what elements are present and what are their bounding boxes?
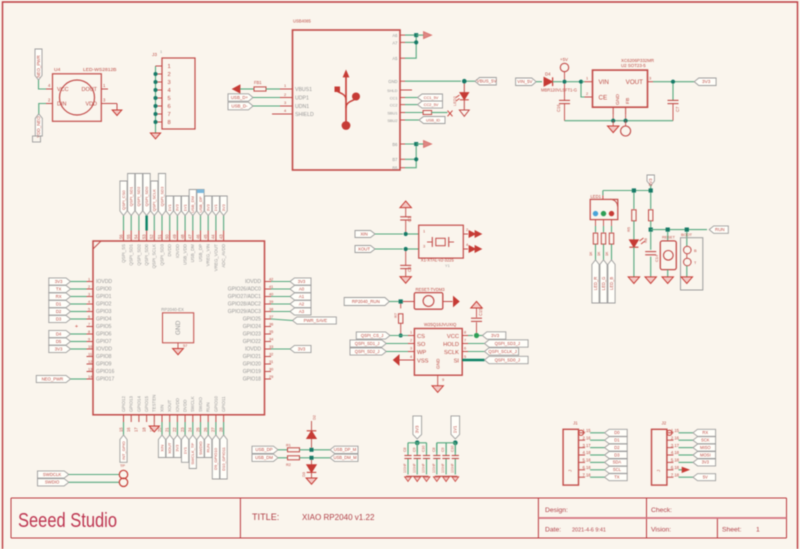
svg-text:TP: TP <box>120 463 125 468</box>
svg-text:GPIO15: GPIO15 <box>144 396 149 412</box>
svg-text:GND: GND <box>436 358 441 369</box>
svg-text:MOSI: MOSI <box>700 452 711 457</box>
svg-text:26: 26 <box>203 427 208 432</box>
svg-text:J1: J1 <box>573 421 578 426</box>
svg-text:C9: C9 <box>441 447 445 452</box>
svg-text:48: 48 <box>180 234 185 239</box>
svg-text:35: 35 <box>269 329 273 334</box>
svg-text:1: 1 <box>423 229 425 234</box>
svg-text:54: 54 <box>134 234 139 239</box>
svg-text:3: 3 <box>410 347 412 351</box>
svg-text:GPIO19: GPIO19 <box>243 369 261 375</box>
svg-text:XIN: XIN <box>360 231 367 236</box>
svg-text:QSPI_SCLK: QSPI_SCLK <box>152 244 157 269</box>
svg-text:2021-4-6 9:41: 2021-4-6 9:41 <box>572 528 606 534</box>
svg-text:C16: C16 <box>556 104 561 112</box>
svg-text:3V3: 3V3 <box>221 203 226 211</box>
svg-text:42: 42 <box>269 276 273 281</box>
svg-text:8: 8 <box>88 329 90 334</box>
svg-text:Seeed Studio: Seeed Studio <box>18 509 117 532</box>
svg-text:3V3: 3V3 <box>702 460 710 465</box>
svg-text:R6: R6 <box>643 238 648 243</box>
svg-text:VREG_VIN: VREG_VIN <box>206 244 211 266</box>
svg-text:2: 2 <box>466 227 468 232</box>
svg-text:1K: 1K <box>597 251 601 256</box>
svg-text:GPIO2: GPIO2 <box>96 302 112 308</box>
svg-text:QSPI_SD2: QSPI_SD2 <box>136 186 141 206</box>
svg-text:D2: D2 <box>56 309 62 314</box>
svg-text:GPIO24: GPIO24 <box>243 324 261 330</box>
svg-text:6.18: 6.18 <box>671 465 680 470</box>
svg-text:SWDIO: SWDIO <box>198 396 203 412</box>
svg-text:GPIO1: GPIO1 <box>96 294 112 300</box>
svg-text:46: 46 <box>195 234 200 239</box>
svg-text:Design:: Design: <box>545 507 568 514</box>
svg-text:RUN: RUN <box>715 227 725 232</box>
svg-text:GPIO9: GPIO9 <box>96 362 112 368</box>
svg-text:GND: GND <box>175 320 182 335</box>
svg-text:39: 39 <box>269 299 273 304</box>
svg-text:55: 55 <box>126 234 131 239</box>
svg-text:SWCLK_TP: SWCLK_TP <box>190 443 195 465</box>
svg-text:GPIO18: GPIO18 <box>243 377 261 383</box>
svg-text:38: 38 <box>269 306 273 311</box>
svg-text:B7: B7 <box>392 157 398 162</box>
svg-text:+5V: +5V <box>560 57 568 62</box>
svg-text:USB_VDD: USB_VDD <box>183 244 188 265</box>
svg-text:8: 8 <box>464 331 466 335</box>
svg-text:21: 21 <box>165 427 170 432</box>
svg-text:RUN: RUN <box>206 402 211 412</box>
svg-text:7.18: 7.18 <box>583 472 592 477</box>
svg-text:1: 1 <box>410 331 412 335</box>
svg-text:D3: D3 <box>56 316 62 321</box>
svg-text:VCC: VCC <box>447 334 459 340</box>
svg-text:BOOT: BOOT <box>681 232 693 237</box>
svg-text:GPIO10: GPIO10 <box>213 396 218 412</box>
svg-text:IOVDD: IOVDD <box>96 347 112 353</box>
svg-text:53: 53 <box>141 234 146 239</box>
svg-text:1: 1 <box>160 49 162 54</box>
svg-text:22: 22 <box>172 427 177 432</box>
svg-text:17: 17 <box>134 427 139 432</box>
svg-text:USB_DP: USB_DP <box>255 447 272 452</box>
svg-text:QSPI_SCLK_J: QSPI_SCLK_J <box>488 349 516 354</box>
svg-text:3.17: 3.17 <box>583 443 592 448</box>
svg-text:GPIO16: GPIO16 <box>96 369 114 375</box>
svg-text:1K: 1K <box>589 251 593 256</box>
svg-text:QSPI_SD0: QSPI_SD0 <box>144 186 149 206</box>
svg-text:C10: C10 <box>422 446 426 452</box>
svg-text:B5: B5 <box>392 165 398 170</box>
svg-text:1V1: 1V1 <box>167 203 172 211</box>
svg-text:36: 36 <box>269 321 273 326</box>
svg-text:RUN: RUN <box>206 444 211 453</box>
svg-text:DVDD: DVDD <box>167 244 172 257</box>
svg-text:2: 2 <box>410 339 412 343</box>
svg-text:27: 27 <box>211 427 216 432</box>
svg-text:3V3: 3V3 <box>55 279 63 284</box>
svg-text:SCLK: SCLK <box>444 350 459 356</box>
svg-text:XIN: XIN <box>159 405 164 412</box>
svg-text:20: 20 <box>157 427 162 432</box>
svg-text:3V3: 3V3 <box>206 203 211 211</box>
svg-text:D4: D4 <box>56 331 62 336</box>
svg-text:RX: RX <box>702 430 708 435</box>
svg-text:2: 2 <box>168 72 171 78</box>
svg-text:USB_ID: USB_ID <box>426 117 440 122</box>
svg-text:XIN: XIN <box>159 445 164 452</box>
svg-text:CC1: CC1 <box>390 95 398 100</box>
svg-text:8: 8 <box>168 120 171 126</box>
svg-text:QSPI_SS: QSPI_SS <box>121 244 126 263</box>
svg-text:NEO_PWR: NEO_PWR <box>42 376 64 381</box>
svg-text:NEO_PWR: NEO_PWR <box>36 55 41 77</box>
svg-text:1: 1 <box>168 64 171 70</box>
svg-text:3: 3 <box>423 244 425 249</box>
svg-text:LED_B: LED_B <box>609 277 614 290</box>
svg-text:D4: D4 <box>545 72 551 77</box>
svg-text:USB_D-: USB_D- <box>231 103 248 108</box>
svg-text:24: 24 <box>188 427 193 432</box>
svg-text:RESET-TVDM3: RESET-TVDM3 <box>416 287 446 292</box>
svg-text:3: 3 <box>88 291 90 296</box>
svg-text:CC2: CC2 <box>390 103 398 108</box>
svg-text:GPIO23: GPIO23 <box>243 332 261 338</box>
svg-text:6.18: 6.18 <box>583 465 592 470</box>
svg-text:RP2040-EX: RP2040-EX <box>161 307 184 312</box>
svg-text:XOUT: XOUT <box>167 399 172 412</box>
svg-text:3.17: 3.17 <box>671 443 680 448</box>
svg-text:R2: R2 <box>286 463 291 467</box>
svg-text:2: 2 <box>586 91 588 96</box>
svg-text:2: 2 <box>88 284 90 289</box>
svg-text:SBU2: SBU2 <box>387 118 397 123</box>
svg-text:3: 3 <box>284 100 286 105</box>
svg-text:A2: A2 <box>299 301 305 306</box>
svg-text:UDP1: UDP1 <box>295 96 309 102</box>
svg-text:UDN1: UDN1 <box>295 104 309 110</box>
svg-text:GPIO17: GPIO17 <box>96 377 114 383</box>
svg-text:DOUT: DOUT <box>82 87 98 93</box>
svg-text:50: 50 <box>165 234 170 239</box>
svg-text:6: 6 <box>168 104 171 110</box>
svg-text:GND: GND <box>388 79 397 84</box>
svg-text:51: 51 <box>157 234 162 239</box>
svg-text:100nF: 100nF <box>403 463 407 473</box>
svg-text:J3: J3 <box>152 52 157 57</box>
svg-text:VCC: VCC <box>57 87 69 93</box>
svg-text:1V1: 1V1 <box>453 425 458 433</box>
svg-text:7: 7 <box>88 321 90 326</box>
svg-text:LED_G: LED_G <box>601 277 606 291</box>
svg-text:QSPI_SD0_J: QSPI_SD0_J <box>495 357 520 362</box>
svg-text:C3: C3 <box>407 216 412 222</box>
svg-text:A6: A6 <box>392 33 398 38</box>
svg-text:CC1_5V: CC1_5V <box>424 95 439 100</box>
svg-text:3: 3 <box>168 80 171 86</box>
svg-text:49: 49 <box>172 234 177 239</box>
svg-text:7: 7 <box>464 339 466 343</box>
svg-text:LED1: LED1 <box>591 194 602 199</box>
svg-text:GPIO4: GPIO4 <box>96 317 112 323</box>
svg-text:XOUT: XOUT <box>358 246 371 251</box>
svg-text:5: 5 <box>168 96 171 102</box>
svg-text:SWDIO: SWDIO <box>198 441 203 455</box>
svg-text:A3: A3 <box>299 309 305 314</box>
svg-text:DVDD: DVDD <box>183 400 188 413</box>
svg-text:4: 4 <box>410 355 412 359</box>
svg-text:A5: A5 <box>392 56 398 61</box>
svg-text:3V3: 3V3 <box>55 346 63 351</box>
svg-text:TX: TX <box>614 475 620 480</box>
svg-text:TESTEN: TESTEN <box>152 395 157 412</box>
svg-text:GPIO25: GPIO25 <box>243 317 261 323</box>
svg-text:USB4085: USB4085 <box>293 19 311 24</box>
svg-text:41: 41 <box>269 284 273 289</box>
svg-text:18: 18 <box>141 427 146 432</box>
svg-text:5: 5 <box>464 355 466 359</box>
svg-text:GPIO22: GPIO22 <box>243 339 261 345</box>
svg-text:LED-WS2812B: LED-WS2812B <box>83 67 117 73</box>
svg-text:QSPI_SD1: QSPI_SD1 <box>129 186 134 206</box>
svg-text:Vision:: Vision: <box>651 527 671 534</box>
svg-text:A1: A1 <box>299 294 305 299</box>
svg-text:USB_DM: USB_DM <box>255 455 273 460</box>
svg-text:100nF: 100nF <box>412 463 416 473</box>
svg-text:1K: 1K <box>605 251 609 256</box>
svg-text:1V1: 1V1 <box>182 446 187 454</box>
svg-text:C8: C8 <box>432 447 436 452</box>
svg-text:HOLD: HOLD <box>443 342 459 348</box>
svg-text:100nF: 100nF <box>451 463 455 473</box>
svg-text:SWDCLK: SWDCLK <box>43 472 61 477</box>
svg-text:23: 23 <box>180 427 185 432</box>
svg-text:R7: R7 <box>393 313 398 318</box>
svg-text:3V3: 3V3 <box>648 178 653 186</box>
svg-text:RX: RX <box>56 294 62 299</box>
svg-text:D0: D0 <box>614 430 620 435</box>
svg-text:43: 43 <box>218 234 223 239</box>
svg-text:C15: C15 <box>478 308 483 316</box>
svg-text:VOUT: VOUT <box>626 79 644 86</box>
svg-text:4.18: 4.18 <box>583 450 592 455</box>
svg-text:3V3: 3V3 <box>175 444 180 452</box>
svg-text:1.15: 1.15 <box>671 428 680 433</box>
svg-text:25: 25 <box>195 427 200 432</box>
svg-text:QSPI_SD1_J: QSPI_SD1_J <box>355 341 380 346</box>
svg-text:SHLD: SHLD <box>387 88 398 93</box>
svg-text:Date:: Date: <box>545 527 561 534</box>
svg-text:GPIO6: GPIO6 <box>96 332 112 338</box>
svg-text:IOVDD: IOVDD <box>245 279 261 285</box>
svg-text:28: 28 <box>218 427 223 432</box>
svg-text:X1-XTAL-v2-3225: X1-XTAL-v2-3225 <box>421 258 455 263</box>
svg-text:2.16: 2.16 <box>671 435 680 440</box>
svg-text:PWR_SAVE: PWR_SAVE <box>304 318 328 323</box>
svg-text:VBUS1: VBUS1 <box>295 87 312 93</box>
svg-text:13: 13 <box>88 366 92 371</box>
svg-text:GPIO8: GPIO8 <box>96 354 112 360</box>
svg-text:SWDIO: SWDIO <box>45 480 60 485</box>
svg-text:1V1: 1V1 <box>213 203 218 211</box>
svg-text:31: 31 <box>269 359 273 364</box>
svg-text:D1: D1 <box>614 438 620 443</box>
svg-text:J: J <box>656 470 661 472</box>
svg-text:1V1: 1V1 <box>182 203 187 211</box>
svg-text:D1: D1 <box>56 301 62 306</box>
svg-text:SCL: SCL <box>613 467 622 472</box>
svg-text:GPIO26/ADC0: GPIO26/ADC0 <box>228 287 261 293</box>
svg-text:37: 37 <box>269 314 273 319</box>
svg-text:SCK: SCK <box>701 438 710 443</box>
svg-text:QSPI_CS0: QSPI_CS0 <box>121 190 126 210</box>
svg-text:GPIO21: GPIO21 <box>243 354 261 360</box>
svg-text:RP2040_RUN: RP2040_RUN <box>352 299 380 304</box>
svg-text:1: 1 <box>586 76 588 81</box>
svg-text:VREG_VOUT: VREG_VOUT <box>213 244 218 271</box>
svg-text:57: 57 <box>183 343 187 348</box>
svg-text:D2: D2 <box>614 445 620 450</box>
svg-text:QSPI_SD0: QSPI_SD0 <box>144 243 149 265</box>
svg-text:GPIO13: GPIO13 <box>129 396 134 412</box>
svg-text:VSS: VSS <box>417 358 429 364</box>
svg-text:5.18: 5.18 <box>583 458 592 463</box>
svg-text:VBUS_5V: VBUS_5V <box>477 79 497 84</box>
svg-text:32: 32 <box>269 351 273 356</box>
svg-text:A7: A7 <box>392 40 398 45</box>
svg-text:MBR120VLSFT1-G: MBR120VLSFT1-G <box>541 88 577 93</box>
svg-text:GPIO29/ADC3: GPIO29/ADC3 <box>228 309 261 315</box>
svg-text:1: 1 <box>756 527 760 534</box>
svg-text:5: 5 <box>88 306 90 311</box>
svg-text:GPIO14: GPIO14 <box>136 396 141 412</box>
svg-text:VDD_NEO: VDD_NEO <box>36 116 41 138</box>
svg-text:100nF: 100nF <box>432 463 436 473</box>
svg-text:GPIO28/ADC2: GPIO28/ADC2 <box>228 302 261 308</box>
svg-text:2.16: 2.16 <box>583 435 592 440</box>
svg-text:9: 9 <box>88 336 90 341</box>
svg-text:9: 9 <box>442 377 444 382</box>
svg-text:U2 SOT23-5: U2 SOT23-5 <box>621 63 646 68</box>
svg-text:QSPI_SD3: QSPI_SD3 <box>159 243 164 265</box>
svg-text:QSPI_SD1: QSPI_SD1 <box>129 243 134 265</box>
svg-text:3: 3 <box>649 76 651 81</box>
svg-text:DIN: DIN <box>57 102 66 108</box>
svg-text:MISO: MISO <box>700 445 711 450</box>
svg-text:VIN: VIN <box>599 79 609 86</box>
svg-text:VDD: VDD <box>85 102 97 108</box>
svg-text:C8: C8 <box>403 447 407 452</box>
svg-text:52: 52 <box>149 234 154 239</box>
svg-text:CS: CS <box>417 334 425 340</box>
svg-text:A0: A0 <box>299 286 305 291</box>
svg-text:33: 33 <box>269 344 273 349</box>
svg-text:QSPI_CS_J: QSPI_CS_J <box>361 333 383 338</box>
svg-text:5V: 5V <box>703 475 708 480</box>
svg-text:C4: C4 <box>407 266 412 272</box>
svg-text:B: B <box>694 248 697 253</box>
svg-text:B6: B6 <box>392 142 398 147</box>
svg-text:C9: C9 <box>412 447 416 452</box>
svg-text:GPIO11: GPIO11 <box>221 396 226 412</box>
svg-text:D9_GPIO10: D9_GPIO10 <box>213 447 218 470</box>
svg-text:INT_GPIO: INT_GPIO <box>121 441 126 460</box>
svg-text:+: + <box>75 324 78 330</box>
svg-text:FB1: FB1 <box>254 80 262 85</box>
svg-text:XOUT: XOUT <box>167 442 172 454</box>
svg-text:56: 56 <box>118 234 123 239</box>
svg-text:D5: D5 <box>56 339 62 344</box>
svg-text:R1: R1 <box>286 444 291 448</box>
svg-text:7.18: 7.18 <box>671 472 680 477</box>
svg-text:3V3: 3V3 <box>298 279 306 284</box>
svg-text:SBU1: SBU1 <box>387 110 397 115</box>
svg-text:GPIO20: GPIO20 <box>243 362 261 368</box>
svg-text:GPIO0: GPIO0 <box>96 287 112 293</box>
svg-text:USB_DM: USB_DM <box>190 195 195 212</box>
svg-text:TITLE:: TITLE: <box>252 512 279 522</box>
svg-text:GPIO3: GPIO3 <box>96 309 112 315</box>
svg-text:USB_D+: USB_D+ <box>231 95 249 100</box>
svg-text:16: 16 <box>126 427 131 432</box>
svg-text:U4: U4 <box>54 67 61 73</box>
svg-text:QSPI_SD3_J: QSPI_SD3_J <box>495 341 520 346</box>
svg-text:6: 6 <box>464 347 466 351</box>
svg-text:47: 47 <box>188 234 193 239</box>
svg-text:D2: D2 <box>312 415 317 420</box>
svg-text:D3: D3 <box>614 452 620 457</box>
svg-text:C7: C7 <box>675 106 680 112</box>
svg-text:2: 2 <box>284 92 286 97</box>
svg-text:J2: J2 <box>662 421 667 426</box>
svg-text:QSPI_SD3: QSPI_SD3 <box>159 186 164 206</box>
svg-text:SHIELD: SHIELD <box>295 112 314 118</box>
svg-text:44: 44 <box>211 234 216 239</box>
svg-text:100nF: 100nF <box>441 463 445 473</box>
svg-text:C14: C14 <box>654 254 659 262</box>
svg-text:RESET: RESET <box>662 235 676 240</box>
svg-text:LED_R: LED_R <box>593 277 598 290</box>
svg-text:LED2: LED2 <box>452 96 457 106</box>
svg-text:USB_DP: USB_DP <box>198 196 203 212</box>
svg-text:GPIO7: GPIO7 <box>96 339 112 345</box>
svg-text:4.18: 4.18 <box>671 450 680 455</box>
svg-text:3V3: 3V3 <box>491 333 500 338</box>
svg-text:SO: SO <box>417 342 426 348</box>
svg-text:11: 11 <box>88 351 92 356</box>
svg-text:3V3: 3V3 <box>702 79 711 84</box>
svg-text:USB_DP_M: USB_DP_M <box>334 447 357 452</box>
svg-text:15: 15 <box>118 427 123 432</box>
svg-text:QSPI_SD2: QSPI_SD2 <box>136 243 141 265</box>
svg-text:CE: CE <box>599 95 608 102</box>
svg-text:Sheet:: Sheet: <box>722 527 742 534</box>
svg-text:GPIO27/ADC1: GPIO27/ADC1 <box>228 294 261 300</box>
svg-text:29: 29 <box>269 374 273 379</box>
svg-text:USB_DM_M: USB_DM_M <box>333 455 357 460</box>
svg-text:6: 6 <box>88 314 90 319</box>
svg-text:J: J <box>568 470 573 472</box>
svg-text:FB: FB <box>625 97 631 104</box>
svg-text:USB_DP: USB_DP <box>198 244 203 262</box>
svg-text:5.18: 5.18 <box>671 458 680 463</box>
svg-text:ADC_AVDD: ADC_AVDD <box>221 244 226 268</box>
svg-text:D3: D3 <box>301 472 306 477</box>
svg-text:3V3: 3V3 <box>298 346 306 351</box>
svg-text:1.15: 1.15 <box>583 428 592 433</box>
svg-text:Y1: Y1 <box>445 263 450 268</box>
